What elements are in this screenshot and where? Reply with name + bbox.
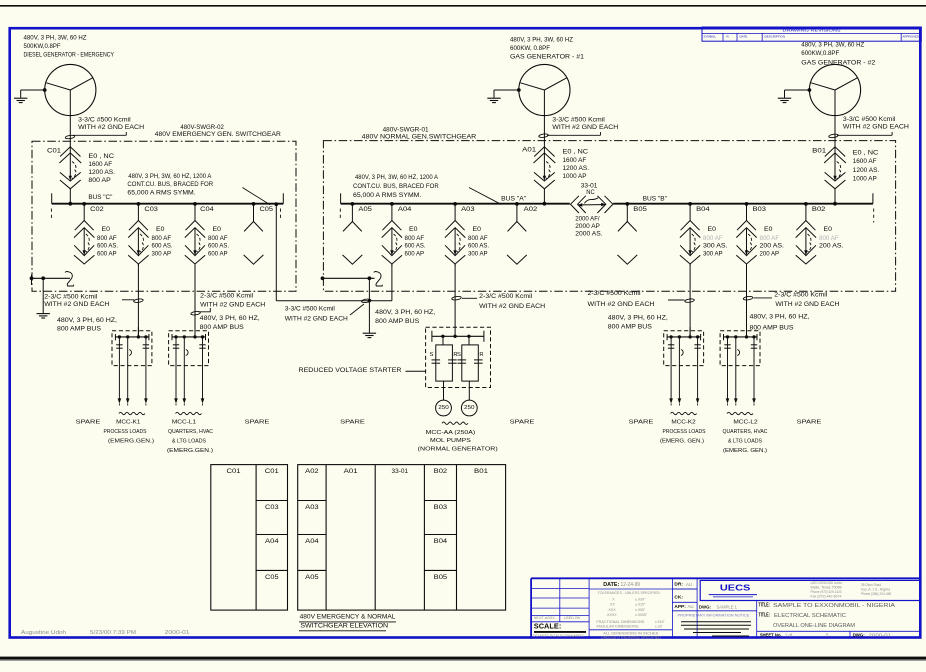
svg-text:B05: B05 (633, 206, 647, 213)
ground bus SWGR-02 (32, 277, 71, 279)
drawing revisions table (702, 27, 921, 41)
svg-text:E0 , NC: E0 , NC (563, 149, 589, 156)
svg-text:APP:: APP: (674, 604, 686, 610)
svg-text:PROPRIETARY INFORMATION NOTICE: PROPRIETARY INFORMATION NOTICE (678, 614, 751, 618)
switchgear box 480V-SWGR-02 (32, 141, 296, 291)
svg-text:C03: C03 (265, 504, 279, 511)
svg-text:800 AMP BUS: 800 AMP BUS (200, 324, 244, 331)
svg-text:3-3/C #500 Kcmil: 3-3/C #500 Kcmil (552, 117, 605, 124)
cable marker B04 (685, 298, 695, 303)
svg-text:AU: AU (688, 604, 694, 609)
svg-text:600 AS.: 600 AS. (152, 243, 173, 250)
svg-text:S: S (457, 352, 461, 358)
svg-text:Phone (972) 429-1423: Phone (972) 429-1423 (811, 590, 842, 594)
svg-text:SPARE: SPARE (629, 420, 654, 426)
svg-text:Wylie, Texas 75098: Wylie, Texas 75098 (811, 585, 842, 589)
svg-text:(NORMAL GENERATOR): (NORMAL GENERATOR) (418, 447, 498, 453)
svg-text:3-3/C #500 Kcmil: 3-3/C #500 Kcmil (285, 306, 335, 313)
svg-text:1200 AS.: 1200 AS. (88, 169, 115, 176)
svg-text:SPARE: SPARE (245, 420, 270, 426)
svg-text:MCC-L2: MCC-L2 (733, 420, 757, 426)
svg-text:600 AP: 600 AP (405, 250, 425, 257)
svg-text:C04: C04 (200, 206, 214, 213)
cable marker G1 3-3/C #500 Kcmil (65, 135, 75, 140)
svg-text:C05: C05 (260, 206, 274, 213)
cable curl SWGR-02 ground (65, 272, 74, 286)
svg-text:800 AF: 800 AF (760, 235, 780, 242)
svg-text:600 AS.: 600 AS. (468, 243, 489, 250)
svg-text:QUARTERS, HVAC: QUARTERS, HVAC (168, 429, 214, 435)
breaker A04 (391, 204, 393, 221)
svg-text:MCC-AA (250A): MCC-AA (250A) (426, 430, 476, 436)
wire A04 feeder to tie (391, 264, 393, 301)
svg-text:2000 AS.: 2000 AS. (575, 230, 603, 237)
svg-text:UDO DESIGNS Unltd: UDO DESIGNS Unltd (811, 581, 842, 585)
svg-text:WITH #2 GND EACH: WITH #2 GND EACH (200, 301, 265, 308)
svg-text:2-3/C #500 Kcmil: 2-3/C #500 Kcmil (774, 292, 827, 299)
svg-text:33-01: 33-01 (392, 468, 409, 475)
svg-text:E0: E0 (156, 226, 165, 233)
svg-text:480V, 3 PH, 3W, 60 HZ: 480V, 3 PH, 3W, 60 HZ (24, 35, 87, 42)
spare B05 (625, 202, 629, 206)
svg-text:MCC-K1: MCC-K1 (116, 420, 140, 426)
svg-text:2-3/C #500 Kcmil: 2-3/C #500 Kcmil (44, 293, 97, 300)
svg-text:480V-SWGR-01: 480V-SWGR-01 (383, 126, 429, 133)
svg-text:E0: E0 (409, 226, 418, 233)
svg-text:S: S (430, 352, 434, 358)
svg-text:TITLE:: TITLE: (759, 603, 771, 609)
breaker C02 spare (83, 204, 85, 221)
svg-text:Uyo, A. 1 S., Nigeria: Uyo, A. 1 S., Nigeria (861, 588, 890, 592)
wire G1 feeder to C01 (69, 116, 71, 147)
svg-text:A01: A01 (344, 468, 359, 475)
svg-text:TOLERANCES - UNLESS SPECIFIED:: TOLERANCES - UNLESS SPECIFIED: (598, 591, 661, 595)
generator G2 gas #1 (519, 64, 570, 115)
svg-text:SYMBOL: SYMBOL (704, 34, 717, 38)
svg-text:1200 AS.: 1200 AS. (853, 167, 880, 174)
svg-text:Fax (972) 442-8074: Fax (972) 442-8074 (811, 594, 842, 598)
svg-text:WITH #2 GND EACH: WITH #2 GND EACH (552, 124, 618, 131)
reduced voltage starter box (426, 327, 491, 387)
svg-text:800 AF: 800 AF (468, 235, 488, 242)
cable marker tie 3-3/C #500 Kcmil (361, 299, 371, 304)
svg-text:AU: AU (686, 582, 692, 587)
svg-text:TITLE:: TITLE: (759, 612, 771, 618)
svg-text:SHEET No.: SHEET No. (760, 633, 782, 638)
svg-text:1200 AS.: 1200 AS. (563, 165, 590, 172)
svg-text:C01: C01 (47, 148, 62, 155)
svg-text:BUS "B": BUS "B" (643, 196, 668, 203)
tie breaker 33-01 (571, 196, 579, 213)
svg-text:GAS GENERATOR - #1: GAS GENERATOR - #1 (510, 53, 585, 60)
motor M2 250 (468, 381, 470, 400)
svg-text:DATE:: DATE: (603, 582, 619, 588)
breaker C04 (194, 204, 196, 221)
MCC-L2 (720, 331, 760, 366)
svg-text:480V, 3 PH, 60 HZ,: 480V, 3 PH, 60 HZ, (608, 314, 668, 321)
svg-text:600 AS.: 600 AS. (405, 243, 426, 250)
svg-text:NEXT ASSY.: NEXT ASSY. (534, 616, 556, 620)
wire C04 feeder (194, 264, 196, 337)
svg-text:CK:: CK: (674, 595, 683, 601)
motor M1 250 (443, 381, 445, 400)
wire C03 feeder (137, 264, 139, 337)
svg-text:A05: A05 (305, 574, 319, 581)
svg-text:300 AP: 300 AP (152, 250, 172, 257)
svg-text:B05: B05 (434, 574, 448, 581)
ground electrode SWGR-02 (37, 313, 50, 315)
svg-text:WITH #2 GND EACH: WITH #2 GND EACH (78, 124, 144, 131)
svg-text:(EMERG.GEN.): (EMERG.GEN.) (167, 448, 213, 454)
svg-text:600 AS.: 600 AS. (97, 243, 118, 250)
wire ground drop A (368, 278, 370, 333)
svg-text:DESCRIPTION: DESCRIPTION (765, 34, 786, 38)
svg-text:R: R (479, 352, 483, 358)
svg-text:800 AP: 800 AP (88, 177, 110, 184)
svg-text:800 AF: 800 AF (819, 235, 839, 242)
svg-text:MOL PUMPS: MOL PUMPS (430, 438, 471, 444)
cable marker C03 (133, 298, 143, 303)
svg-text:5/23/00 7:39 PM: 5/23/00 7:39 PM (90, 630, 136, 636)
svg-text:B04: B04 (434, 538, 448, 545)
svg-text:800 AF: 800 AF (703, 235, 723, 242)
svg-text:300 AP: 300 AP (703, 250, 723, 257)
svg-text:480V, 3 PH, 3W, 60 HZ: 480V, 3 PH, 3W, 60 HZ (801, 42, 864, 49)
breaker B02 spare (805, 204, 807, 221)
svg-text:Augustine Udoh: Augustine Udoh (21, 630, 66, 636)
svg-text:.XXXX: .XXXX (606, 613, 617, 617)
svg-text:A04: A04 (305, 538, 319, 545)
svg-text:E0: E0 (102, 226, 111, 233)
svg-text:WITH #2 GND EACH: WITH #2 GND EACH (588, 301, 656, 308)
svg-text:A05: A05 (358, 206, 372, 213)
svg-text:SAMPLE TO EXXONMOBIL - NIGERIA: SAMPLE TO EXXONMOBIL - NIGERIA (773, 603, 896, 609)
wire BUS A (341, 203, 570, 205)
starter unit 1 (442, 336, 444, 345)
svg-text:C01: C01 (227, 468, 242, 475)
svg-text:800 AF: 800 AF (208, 235, 228, 242)
svg-text:UECS: UECS (720, 582, 751, 592)
svg-text:200 AS.: 200 AS. (760, 243, 785, 250)
svg-text:1000 AP: 1000 AP (563, 173, 587, 180)
MCC-L1 (169, 331, 209, 366)
svg-text:1000 AP: 1000 AP (853, 175, 877, 182)
svg-text:BUS "C": BUS "C" (88, 194, 113, 201)
svg-text:C03: C03 (144, 206, 158, 213)
svg-text:800 AMP BUS: 800 AMP BUS (57, 325, 101, 332)
svg-text:600 AP: 600 AP (208, 250, 228, 257)
svg-text:.XX: .XX (609, 603, 615, 607)
svg-text:Phone (286) 204-348: Phone (286) 204-348 (861, 592, 891, 596)
title block frame (531, 577, 920, 579)
svg-text:E0 , NC: E0 , NC (853, 150, 879, 157)
svg-text:800 AMP BUS: 800 AMP BUS (750, 324, 794, 331)
svg-text:MCC-L1: MCC-L1 (172, 420, 196, 426)
generator G1 diesel emergency (45, 64, 96, 115)
MCC-K1 (112, 331, 152, 366)
svg-text:1600 AF: 1600 AF (853, 158, 877, 165)
svg-text:(EMERG. GEN.): (EMERG. GEN.) (660, 438, 704, 444)
switchgear box 480V-SWGR-01 (323, 141, 895, 292)
wire BUS B (613, 203, 873, 205)
svg-text:2000-01: 2000-01 (869, 633, 892, 638)
svg-text:SPARE: SPARE (340, 420, 365, 426)
svg-text:WITH #2 GND EACH: WITH #2 GND EACH (479, 303, 545, 310)
elevation table left (211, 465, 288, 610)
svg-text:A01: A01 (522, 147, 537, 154)
svg-text:480V, 3 PH, 60 HZ,: 480V, 3 PH, 60 HZ, (750, 314, 810, 321)
svg-text:E0: E0 (708, 226, 717, 233)
svg-text:200 AS.: 200 AS. (819, 243, 844, 250)
svg-text:300 AS.: 300 AS. (703, 243, 728, 250)
svg-text:DWG:: DWG: (699, 604, 711, 610)
svg-text:250: 250 (464, 405, 475, 411)
svg-text:300 AP: 300 AP (468, 250, 488, 257)
svg-text:B03: B03 (753, 206, 767, 213)
cable marker G3 3-3/C #500 Kcmil (829, 134, 839, 139)
svg-text:800 AMP BUS: 800 AMP BUS (608, 324, 652, 331)
svg-text:MCC-K2: MCC-K2 (671, 420, 695, 426)
svg-text:SPARE: SPARE (510, 420, 535, 426)
svg-text:& LTG LOADS: & LTG LOADS (728, 438, 762, 444)
ground electrode SWGR-01 (363, 332, 376, 334)
svg-text:480V, 3 PH, 3W, 60 HZ, 1200 A: 480V, 3 PH, 3W, 60 HZ, 1200 A (355, 174, 439, 181)
svg-text:APPROVED: APPROVED (903, 34, 921, 38)
svg-text:DIESEL GENERATOR - EMERGENCY: DIESEL GENERATOR - EMERGENCY (24, 52, 115, 59)
svg-text:C02: C02 (90, 206, 104, 213)
ground bus SWGR-01 (323, 277, 375, 279)
starter unit 2 (468, 336, 470, 345)
svg-text:QUARTERS, HVAC: QUARTERS, HVAC (723, 429, 769, 435)
svg-text:12-24-99: 12-24-99 (621, 582, 641, 588)
svg-text:3-3/C #500 Kcmil: 3-3/C #500 Kcmil (843, 116, 896, 123)
svg-text:B02: B02 (434, 468, 448, 475)
svg-text:480V, 3 PH, 60 HZ,: 480V, 3 PH, 60 HZ, (375, 309, 435, 316)
svg-text:65,000 A RMS SYMM.: 65,000 A RMS SYMM. (353, 192, 422, 199)
wire B04 feeder (689, 264, 691, 337)
generator G3 gas #2 (809, 64, 860, 115)
breaker B03 (746, 204, 748, 221)
svg-text:CONT.CU. BUS, BRACED FOR: CONT.CU. BUS, BRACED FOR (127, 181, 213, 188)
svg-text:±.0005": ±.0005" (635, 613, 648, 617)
svg-text:B03: B03 (434, 504, 448, 511)
cable marker C04 (191, 311, 201, 316)
svg-text:480V EMERGENCY & NORMAL: 480V EMERGENCY & NORMAL (300, 614, 396, 621)
breaker B01 (834, 147, 836, 177)
svg-text:2000 AP: 2000 AP (575, 223, 600, 230)
wire ground drop C (42, 278, 44, 313)
svg-text:800 AF: 800 AF (405, 235, 425, 242)
breaker A01 (543, 147, 545, 177)
svg-text:2000 AF/: 2000 AF/ (575, 216, 600, 223)
svg-text:OVERALL ONE-LINE DIAGRAM: OVERALL ONE-LINE DIAGRAM (773, 623, 855, 629)
svg-text:2000-01: 2000-01 (165, 630, 190, 636)
wire G2 feeder to A01 (543, 116, 545, 147)
svg-text:B02: B02 (812, 206, 826, 213)
svg-text:480V, 3 PH, 60 HZ,: 480V, 3 PH, 60 HZ, (200, 315, 260, 322)
wire B03 feeder (746, 264, 748, 337)
wire BUS C (52, 203, 284, 205)
svg-text:250: 250 (438, 405, 449, 411)
svg-text:UNLESS OTHERWISE SPECIFIED: UNLESS OTHERWISE SPECIFIED (601, 636, 662, 640)
svg-text:E0: E0 (473, 226, 482, 233)
svg-text:A04: A04 (265, 538, 279, 545)
breaker A03 (454, 204, 456, 221)
svg-text:600 AS.: 600 AS. (208, 243, 229, 250)
svg-text:A04: A04 (398, 206, 412, 213)
svg-text:480V-SWGR-02: 480V-SWGR-02 (180, 124, 224, 131)
next assy grid (559, 578, 561, 622)
wire A03 feeder (454, 264, 456, 336)
svg-text:B04: B04 (696, 206, 710, 213)
approvals cells (672, 588, 697, 590)
wire G3 feeder to B01 (834, 116, 836, 147)
bottom border bar (0, 657, 926, 660)
svg-text:B01: B01 (812, 148, 827, 155)
svg-text:A03: A03 (305, 504, 319, 511)
svg-text:E0: E0 (213, 226, 222, 233)
svg-text:SAMPLE 1: SAMPLE 1 (717, 605, 738, 611)
svg-text:800 AF: 800 AF (97, 235, 117, 242)
svg-text:.XXX: .XXX (608, 608, 617, 612)
svg-text:REDUCED VOLTAGE STARTER: REDUCED VOLTAGE STARTER (299, 367, 402, 374)
svg-text:1600 AF: 1600 AF (88, 161, 112, 168)
svg-text:PROCESS LOADS: PROCESS LOADS (663, 429, 706, 435)
cable marker G2 3-3/C #500 Kcmil (539, 133, 549, 138)
svg-text:SPARE: SPARE (76, 420, 101, 426)
svg-text:BUS "A": BUS "A" (501, 196, 527, 203)
svg-text:480V, 3 PH, 3W, 60 HZ, 1200 A: 480V, 3 PH, 3W, 60 HZ, 1200 A (128, 173, 212, 180)
svg-text:WITH #2 GND EACH: WITH #2 GND EACH (843, 124, 909, 131)
svg-text:±.030": ±.030" (635, 597, 646, 601)
company cell UECS (700, 580, 920, 600)
MCC-K2 (664, 331, 704, 366)
svg-text:800 AF: 800 AF (152, 235, 172, 242)
svg-text:480V, 3 PH, 60 HZ,: 480V, 3 PH, 60 HZ, (57, 317, 117, 324)
cable curl SWGR-01 ground (374, 272, 383, 286)
svg-text:2-3/C #500 Kcmil: 2-3/C #500 Kcmil (588, 290, 641, 297)
breaker B04 (689, 204, 691, 221)
svg-text:E0 , NC: E0 , NC (88, 153, 114, 160)
svg-text:35 Okon Road: 35 Okon Road (861, 583, 881, 587)
svg-text:GAS GENERATOR - #2: GAS GENERATOR - #2 (801, 60, 876, 67)
svg-text:DWG:: DWG: (853, 633, 865, 638)
svg-text:480V NORMAL GEN.SWITCHGEAR: 480V NORMAL GEN.SWITCHGEAR (362, 134, 477, 141)
svg-text:CONT.CU. BUS, BRACED FOR: CONT.CU. BUS, BRACED FOR (353, 183, 439, 190)
spare A05 (351, 202, 355, 206)
svg-text:C05: C05 (265, 574, 279, 581)
spare A02 (515, 202, 519, 206)
svg-text:A03: A03 (461, 206, 475, 213)
svg-text:600KW, 0.8PF: 600KW, 0.8PF (510, 45, 550, 52)
brace MCC-AA (442, 422, 468, 424)
svg-text:1600 AF: 1600 AF (563, 157, 587, 164)
svg-text:480V, 3 PH, 3W, 60 HZ: 480V, 3 PH, 3W, 60 HZ (510, 36, 573, 43)
svg-text:E0: E0 (824, 226, 833, 233)
svg-text:3-3/C #500 Kcmil: 3-3/C #500 Kcmil (78, 117, 131, 124)
svg-text:SWITCHGEAR ELEVATION: SWITCHGEAR ELEVATION (300, 623, 388, 630)
svg-text:WITH #2 GND EACH: WITH #2 GND EACH (285, 315, 348, 322)
svg-text:& LTG LOADS: & LTG LOADS (172, 438, 206, 444)
svg-text:NC: NC (586, 189, 595, 196)
svg-text:SPARE: SPARE (797, 420, 822, 426)
svg-text:E0: E0 (764, 226, 773, 233)
svg-text:ANGULAR DIMENSIONS: ANGULAR DIMENSIONS (596, 624, 639, 628)
svg-text:DO NOT SCALE DRAWING: DO NOT SCALE DRAWING (533, 634, 585, 638)
svg-text:200 AP: 200 AP (760, 250, 780, 257)
svg-text:PROCESS LOADS: PROCESS LOADS (104, 429, 147, 435)
svg-text:USED ON: USED ON (564, 616, 581, 620)
spare C05 (252, 202, 256, 206)
svg-text:ELECTRICAL SCHEMATIC: ELECTRICAL SCHEMATIC (774, 613, 846, 619)
svg-text:±.30': ±.30' (655, 624, 663, 628)
breaker C01 (69, 147, 71, 177)
svg-text:±.015": ±.015" (635, 603, 646, 607)
svg-text:A02: A02 (305, 468, 319, 475)
cable marker A03 (452, 296, 462, 301)
svg-text:B01: B01 (474, 468, 489, 475)
svg-text:WITH #2 GND EACH: WITH #2 GND EACH (775, 301, 839, 308)
elevation table right (298, 465, 506, 610)
svg-text:DR:: DR: (674, 582, 683, 588)
svg-text:480V EMERGENCY GEN. SWITCHGEAR: 480V EMERGENCY GEN. SWITCHGEAR (155, 131, 281, 138)
svg-text:±.005": ±.005" (635, 608, 646, 612)
tie cable A04 to BUS C (275, 205, 277, 301)
svg-text:DRAWING REVISIONS: DRAWING REVISIONS (783, 27, 841, 32)
svg-text:65,000 A RMS SYMM.: 65,000 A RMS SYMM. (127, 190, 196, 197)
svg-text:800 AMP BUS: 800 AMP BUS (375, 318, 419, 325)
cable marker B03 (743, 296, 753, 301)
svg-text:2-3/C #500 Kcmil: 2-3/C #500 Kcmil (200, 292, 253, 299)
svg-text:SCALE:: SCALE: (534, 622, 562, 631)
svg-text:600KW,0.8PF: 600KW,0.8PF (801, 50, 839, 57)
svg-text:.X: .X (611, 597, 615, 601)
svg-text:600 AP: 600 AP (97, 250, 117, 257)
svg-text:2-3/C #500 Kcmil: 2-3/C #500 Kcmil (479, 293, 532, 300)
svg-text:DATE: DATE (740, 34, 748, 38)
svg-text:(EMERG.GEN.): (EMERG.GEN.) (108, 438, 154, 444)
breaker C03 (137, 204, 139, 221)
svg-text:1 of: 1 of (785, 633, 793, 638)
svg-text:C01: C01 (265, 468, 280, 475)
svg-text:WITH #2 GND EACH: WITH #2 GND EACH (44, 301, 109, 308)
svg-text:500KW,0.8PF: 500KW,0.8PF (24, 43, 61, 50)
top border line (0, 5, 926, 7)
svg-text:A02: A02 (524, 206, 538, 213)
svg-text:(EMERG. GEN.): (EMERG. GEN.) (723, 448, 767, 454)
